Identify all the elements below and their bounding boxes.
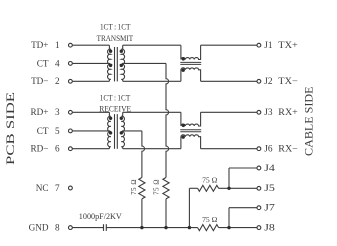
svg-text:J6: J6 <box>264 144 273 154</box>
svg-text:2: 2 <box>55 76 60 86</box>
svg-text:J7: J7 <box>264 203 275 213</box>
svg-text:75 Ω: 75 Ω <box>131 179 138 195</box>
svg-text:J1: J1 <box>264 40 273 50</box>
svg-text:RECEIVE: RECEIVE <box>99 105 131 114</box>
svg-text:J5: J5 <box>264 183 275 193</box>
svg-text:1000pF/2KV: 1000pF/2KV <box>79 212 122 221</box>
svg-text:5: 5 <box>55 126 60 136</box>
svg-text:1: 1 <box>55 40 60 50</box>
svg-text:RD−: RD− <box>31 144 49 154</box>
svg-text:TD−: TD− <box>31 76 48 86</box>
svg-text:1CT : 1CT: 1CT : 1CT <box>100 94 131 103</box>
svg-text:J8: J8 <box>264 223 275 233</box>
svg-text:3: 3 <box>55 107 60 117</box>
svg-text:GND: GND <box>29 223 49 233</box>
svg-text:J4: J4 <box>264 163 275 173</box>
svg-text:7: 7 <box>55 183 60 193</box>
svg-text:CT: CT <box>37 58 49 68</box>
svg-text:TX−: TX− <box>278 76 298 86</box>
svg-text:RX+: RX+ <box>278 107 298 117</box>
svg-text:75 Ω: 75 Ω <box>153 179 160 195</box>
svg-text:75 Ω: 75 Ω <box>202 176 217 184</box>
svg-text:CABLE SIDE: CABLE SIDE <box>303 86 316 156</box>
svg-text:1CT : 1CT: 1CT : 1CT <box>100 22 131 31</box>
svg-text:RD+: RD+ <box>31 107 49 117</box>
svg-text:CT: CT <box>37 126 49 136</box>
svg-text:TRANSMIT: TRANSMIT <box>97 34 134 43</box>
svg-text:TX+: TX+ <box>278 40 298 50</box>
svg-text:TD+: TD+ <box>31 40 48 50</box>
svg-text:J2: J2 <box>264 76 273 86</box>
svg-text:NC: NC <box>36 183 49 193</box>
svg-text:J3: J3 <box>264 107 273 117</box>
svg-text:4: 4 <box>55 58 60 68</box>
svg-text:6: 6 <box>55 144 60 154</box>
svg-text:75 Ω: 75 Ω <box>202 216 217 224</box>
svg-text:RX−: RX− <box>278 144 298 154</box>
svg-text:PCB SIDE: PCB SIDE <box>4 92 17 165</box>
svg-text:8: 8 <box>55 223 60 233</box>
